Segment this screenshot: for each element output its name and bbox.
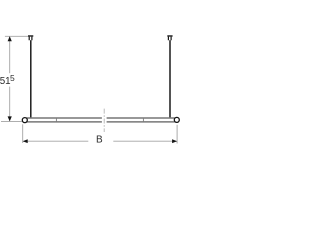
arrowhead B left [23,139,28,143]
extension line B right [176,125,178,144]
extension line bottom (rail bottom level) [1,120,22,122]
rail tube top edge [26,117,175,119]
dimension text 51 superscript 5 [0,73,15,87]
dimension line 51.5 vertical [9,37,11,121]
svg-text:51: 51 [0,76,11,87]
rail joint tick right [142,118,144,121]
extension line top (ceiling level) [5,35,28,37]
rail joint tick left [55,118,57,121]
arrowhead B right [172,139,177,143]
extension line B left [22,124,24,143]
right ceiling plate [167,35,172,36]
dimension line B horizontal [23,140,176,142]
left hanger socket [29,37,32,41]
break centerline dash-dot [103,109,105,132]
left ceiling plate [28,35,33,36]
arrowhead down [8,116,12,121]
svg-text:B: B [96,135,103,146]
rail tube bottom edge [26,121,175,123]
rail end cap right [174,117,179,122]
svg-text:5: 5 [10,73,15,83]
dimension text B [96,135,103,146]
left hanger rod [30,40,32,118]
rail end cap left [22,118,27,123]
right hanger rod [169,40,171,118]
right hanger socket [168,37,171,41]
arrowhead up [8,36,12,41]
